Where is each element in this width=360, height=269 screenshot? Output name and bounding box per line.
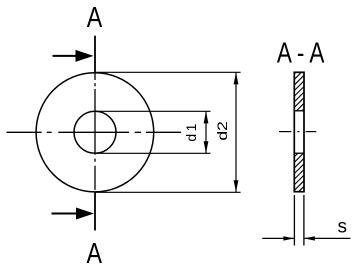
- svg-text:s: s: [338, 217, 348, 238]
- dimension line s (right part with arrow): [304, 236, 351, 240]
- dimension line s (left part with arrow): [262, 236, 294, 240]
- vertical centre line: [94, 73, 96, 190]
- section hole edge top: [294, 110, 304, 112]
- extension line d1 top: [96, 110, 211, 112]
- extension line d2 bottom: [95, 191, 241, 193]
- svg-text:d2: d2: [214, 121, 230, 141]
- extension line d1 bottom: [96, 152, 211, 154]
- section outline rectangle: [294, 72, 304, 191]
- section horizontal centre line: [279, 131, 316, 133]
- dimension line d2: [234, 72, 239, 192]
- svg-text:A: A: [87, 2, 103, 34]
- dimension line d1: [204, 111, 209, 153]
- view direction arrow (top): [53, 50, 94, 62]
- extension line d2 top: [95, 71, 241, 73]
- hatching upper area: [257, 72, 340, 111]
- svg-text:A: A: [87, 238, 103, 269]
- washer inner circle (hole d1): [74, 111, 116, 153]
- cutting plane line (bottom segment): [94, 192, 96, 230]
- section hole edge bottom: [294, 152, 304, 154]
- hatching lower area: [259, 153, 342, 192]
- washer outer circle: [36, 73, 154, 192]
- svg-text:A - A: A - A: [277, 38, 325, 70]
- extension line s left: [293, 195, 295, 246]
- view direction arrow (bottom): [52, 208, 95, 220]
- svg-text:d1: d1: [183, 123, 199, 141]
- cutting plane line (top segment): [94, 36, 96, 73]
- extension line s right: [303, 195, 305, 246]
- horizontal centre line: [7, 131, 182, 133]
